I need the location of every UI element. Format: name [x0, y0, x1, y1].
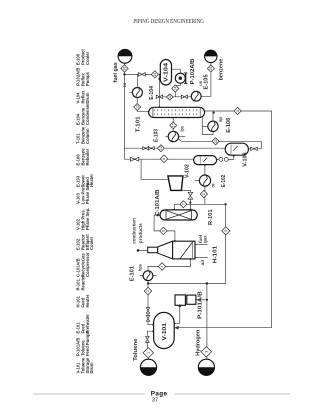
wire: hydrogen riser	[206, 284, 208, 360]
svg-text:Pumps: Pumps	[85, 71, 90, 86]
svg-text:15: 15	[209, 67, 213, 71]
wire: E-101 feed line down	[147, 281, 149, 288]
svg-text:9: 9	[202, 193, 206, 195]
junction dot H-101 top nozzle	[174, 240, 176, 242]
exchanger E-104 condenser	[132, 88, 142, 98]
wire: recycle gas downcomer	[148, 204, 225, 283]
junction dot H-101 feed nozzle	[189, 258, 191, 260]
svg-text:benzene: benzene	[219, 58, 225, 80]
svg-text:7: 7	[182, 203, 186, 205]
wire: stack vent to combustion products	[138, 249, 148, 251]
valve on purge line	[130, 157, 138, 161]
stream diamond 5 (recycle gas)	[222, 227, 230, 235]
svg-text:Heater: Heater	[89, 174, 94, 187]
wire: T-101 bottoms line	[176, 111, 272, 328]
svg-text:Compressor: Compressor	[85, 252, 90, 277]
stream diamond 4 (to heater)	[158, 263, 165, 270]
svg-text:E-105: E-105	[204, 74, 210, 89]
stream flag: benzene	[205, 50, 217, 62]
junction dot H-101 air nozzle	[194, 256, 196, 258]
compressor C-101A/B	[168, 176, 183, 191]
svg-text:gas: gas	[202, 235, 207, 243]
svg-text:H-101: H-101	[213, 246, 219, 263]
junction dot T-101 feed nozzle	[172, 116, 174, 118]
wire: reflux/product horizontal	[159, 96, 191, 98]
stream flag: fuel gas	[118, 49, 132, 63]
svg-text:Cooler: Cooler	[89, 236, 94, 250]
stream diamond 15 (benzene)	[207, 65, 214, 72]
svg-text:P-102A/B: P-102A/B	[190, 58, 196, 84]
wire: V-104 offgas line	[124, 73, 160, 75]
svg-text:combustion: combustion	[131, 218, 136, 244]
wire: fuel gas header vertical	[124, 64, 130, 160]
stream diamond 1 (toluene)	[143, 348, 153, 358]
wire: C-101 discharge to check valve	[181, 190, 190, 192]
wire: V-104 to P-102 suction	[172, 69, 181, 73]
svg-text:10: 10	[159, 146, 163, 150]
wire: benzene flag stem	[210, 63, 212, 66]
pump P-101A square A	[175, 295, 185, 305]
wire: T-101 feed riser from E-103	[172, 117, 174, 131]
svg-text:R-101: R-101	[208, 209, 214, 225]
T-101 trays	[153, 109, 155, 111]
stream diamond 9 (effluent)	[200, 190, 207, 197]
wire: V-103 vapor line to header	[124, 147, 225, 149]
svg-text:19: 19	[153, 72, 157, 76]
junction dot V-101 lower nozzle	[152, 330, 154, 332]
wire: H-101 to R-101	[154, 215, 175, 241]
stream diamond 6 (to reactor)	[160, 227, 167, 234]
svg-text:Reboiler: Reboiler	[85, 148, 90, 165]
vessel V-104 reflux drum	[160, 60, 171, 86]
footer rule left	[33, 393, 145, 395]
wire: H-101 air stub	[195, 256, 208, 258]
junction dot T-101 lower nozzle	[187, 116, 189, 118]
svg-text:E-102: E-102	[221, 174, 227, 187]
exchanger E-106 reboiler	[208, 121, 218, 131]
junction dot V-101 upper nozzle	[152, 324, 154, 326]
vessel V-102 HP separator	[194, 156, 217, 165]
svg-text:lps: lps	[179, 125, 184, 131]
exchanger E-102 effluent cooler	[199, 175, 210, 186]
wire: feed line to V-101	[148, 295, 154, 325]
svg-text:11: 11	[236, 109, 240, 113]
svg-text:Drum: Drum	[85, 92, 90, 103]
stream diamond 12 (reflux)	[167, 94, 174, 101]
vessel V-101 toluene drum	[154, 312, 175, 348]
svg-text:E-101: E-101	[130, 266, 136, 281]
wire: stub into R-101 right nozzle	[190, 204, 192, 209]
stream diamond 10 (V-103 vapor)	[157, 145, 164, 152]
arrow into R-101	[157, 214, 161, 217]
svg-text:cw: cw	[122, 82, 127, 87]
junction dot V-103 inlet	[233, 154, 235, 156]
exchanger E-101 feed preheater	[143, 271, 153, 281]
wire: E-105 outlet to benzene flag	[201, 72, 211, 97]
stream diamond 7 (reactor out)	[180, 201, 187, 208]
stream diamond 14 (product)	[172, 85, 179, 92]
svg-text:Toluene: Toluene	[133, 338, 139, 361]
column T-101	[149, 107, 205, 117]
exchanger E-105 product cooler	[191, 91, 201, 101]
svg-text:Cooler: Cooler	[85, 51, 90, 65]
svg-text:17: 17	[171, 123, 175, 127]
wire: V-101 to P-101 suction	[174, 305, 180, 323]
wire: purge drop to compressor inlet	[141, 159, 169, 179]
svg-text:V-101: V-101	[162, 323, 168, 341]
junction dot H-101 fuel nozzle	[194, 244, 196, 246]
R-101 internals X	[166, 211, 192, 220]
wire: reactor outlet header	[174, 204, 225, 210]
svg-text:fuel gas: fuel gas	[113, 62, 119, 83]
svg-text:Phase Sep.: Phase Sep.	[85, 208, 90, 230]
vessel V-103 LP separator	[225, 143, 248, 155]
junction dot recycle/hydrogen mix	[206, 282, 208, 284]
stream flag: Toluene	[140, 359, 156, 375]
svg-text:Phase Sep.: Phase Sep.	[85, 182, 90, 204]
wire: reflux drop V-104 to T-101	[158, 74, 160, 107]
svg-text:Hydrogen: Hydrogen	[196, 330, 202, 356]
junction dot reflux/offgas	[158, 78, 160, 80]
svg-text:hps: hps	[137, 264, 142, 271]
footer rule right	[175, 393, 291, 395]
stream diamond 18 (V-103 liquid)	[212, 138, 219, 145]
svg-text:C-101A/B: C-101A/B	[155, 189, 161, 216]
svg-text:E-103: E-103	[154, 129, 160, 142]
wire: P-102 discharge	[175, 83, 180, 97]
check valve on C-101 discharge	[188, 192, 193, 199]
svg-text:T-101: T-101	[135, 116, 141, 132]
valve on reflux drop	[156, 95, 162, 98]
wire: E-101 to H-101	[148, 259, 191, 271]
svg-text:air: air	[200, 259, 205, 265]
wire: V-102 purge line to header	[130, 158, 194, 160]
valve on V-102 liquid (double ball)	[219, 158, 223, 162]
pump P-102A/B	[175, 73, 185, 83]
valve pair on V-103 vapor line	[143, 147, 149, 150]
wire: E-103 utility stubs	[165, 136, 168, 138]
valve on offgas line	[138, 73, 145, 77]
wire: toluene line from flag to V-101	[147, 358, 149, 359]
stream diamond 8 (V-102 vapor)	[160, 155, 168, 163]
wire: E-101 utility stubs	[140, 275, 143, 277]
wire: R-101 effluent to E-102	[204, 186, 206, 204]
wire: reboiler side stub	[202, 126, 208, 128]
wire: P-101 discharge to hydrogen line	[196, 299, 207, 301]
svg-text:3: 3	[205, 351, 209, 353]
svg-text:14: 14	[173, 87, 177, 91]
svg-text:37: 37	[152, 397, 158, 403]
svg-text:4: 4	[160, 265, 164, 267]
svg-text:8: 8	[162, 158, 166, 160]
reactor R-101	[160, 210, 197, 220]
junction dot pump discharge tie	[206, 299, 208, 301]
wire: fuel gas flag stem	[124, 63, 126, 65]
svg-text:PIPING DESIGN ENGINEERING: PIPING DESIGN ENGINEERING	[133, 18, 204, 25]
svg-text:Reactor: Reactor	[80, 275, 85, 291]
svg-text:16: 16	[123, 67, 127, 71]
svg-text:V-102: V-102	[184, 164, 190, 178]
junction dot check valve tie	[189, 202, 191, 204]
valve on product line	[181, 95, 187, 98]
stream diamond 11 (bottoms recycle)	[234, 107, 241, 114]
svg-text:cw: cw	[211, 183, 216, 187]
wire: E-104 to overhead diamond	[136, 98, 138, 104]
svg-text:P-101A/B: P-101A/B	[198, 291, 204, 319]
svg-text:cw: cw	[198, 81, 203, 86]
svg-text:products: products	[138, 223, 143, 244]
svg-text:12: 12	[168, 95, 172, 99]
junction dot T-101 reflux nozzle	[158, 106, 160, 108]
svg-text:V-104: V-104	[164, 63, 170, 82]
svg-text:1: 1	[147, 352, 151, 354]
svg-text:Heater: Heater	[85, 294, 90, 307]
wire: V-104 nozzle stub	[159, 78, 161, 80]
stream diamond 17 (column feed)	[170, 122, 177, 129]
svg-text:V-103: V-103	[243, 152, 249, 167]
wire: E-104 riser to offgas line	[137, 74, 139, 87]
stream diamond 16 (fuel gas)	[121, 65, 128, 72]
valve pair on V-101 feed line	[146, 308, 149, 314]
svg-text:13: 13	[135, 105, 139, 109]
junction dot P-101 suction	[173, 322, 175, 324]
wire: V-103 outlet loop	[249, 148, 251, 150]
wire: E-102 cw stub	[195, 180, 200, 182]
wire: E-104 cw stub	[129, 92, 132, 94]
stream flag: Hydrogen	[198, 359, 214, 375]
wire: E-102 to V-102	[204, 165, 206, 175]
wire: reboiler draw	[202, 117, 213, 134]
junction dot recycle corner	[224, 203, 226, 205]
valve on V-103 outlet	[251, 147, 258, 151]
svg-text:mps: mps	[218, 117, 223, 122]
svg-text:18: 18	[214, 139, 218, 143]
arrow into V-101 (toluene recycle)	[174, 326, 178, 330]
wire: T-101 overhead to E-104	[137, 110, 149, 111]
wire: V-103 liquid line to E-103	[178, 139, 261, 142]
svg-text:2: 2	[146, 290, 150, 292]
valve on toluene line	[146, 336, 150, 342]
heater H-101	[148, 247, 158, 253]
svg-text:5: 5	[224, 230, 228, 232]
junction dot R-101 inlet nozzle	[173, 209, 175, 211]
stream diamond 19 (offgas)	[151, 71, 158, 78]
wire: reboiler return riser	[212, 111, 214, 121]
wire: H-101 fuel gas stub	[195, 244, 208, 246]
svg-text:Column: Column	[85, 128, 90, 144]
stream diamond 2 (combined feed)	[144, 287, 151, 294]
svg-text:Drum: Drum	[89, 362, 94, 373]
svg-text:E-104: E-104	[149, 86, 155, 100]
junction dot fuel header / offgas	[123, 73, 125, 75]
junction dot V-102 inlet	[204, 163, 206, 165]
pump P-101B square B	[187, 295, 196, 304]
wire: V-102 liquid to V-103	[217, 158, 219, 160]
svg-text:Condenser: Condenser	[85, 103, 90, 125]
stream diamond 13 (overhead)	[134, 104, 141, 111]
junction dot feed mix at E-101	[147, 282, 149, 284]
svg-text:Preheater: Preheater	[85, 314, 90, 334]
stream diamond 3 (hydrogen)	[201, 347, 211, 357]
svg-text:E-106: E-106	[226, 118, 232, 133]
svg-text:Feed Pumps: Feed Pumps	[85, 330, 90, 356]
svg-text:6: 6	[162, 230, 166, 232]
exchanger E-103 tower feed heater	[168, 131, 178, 141]
